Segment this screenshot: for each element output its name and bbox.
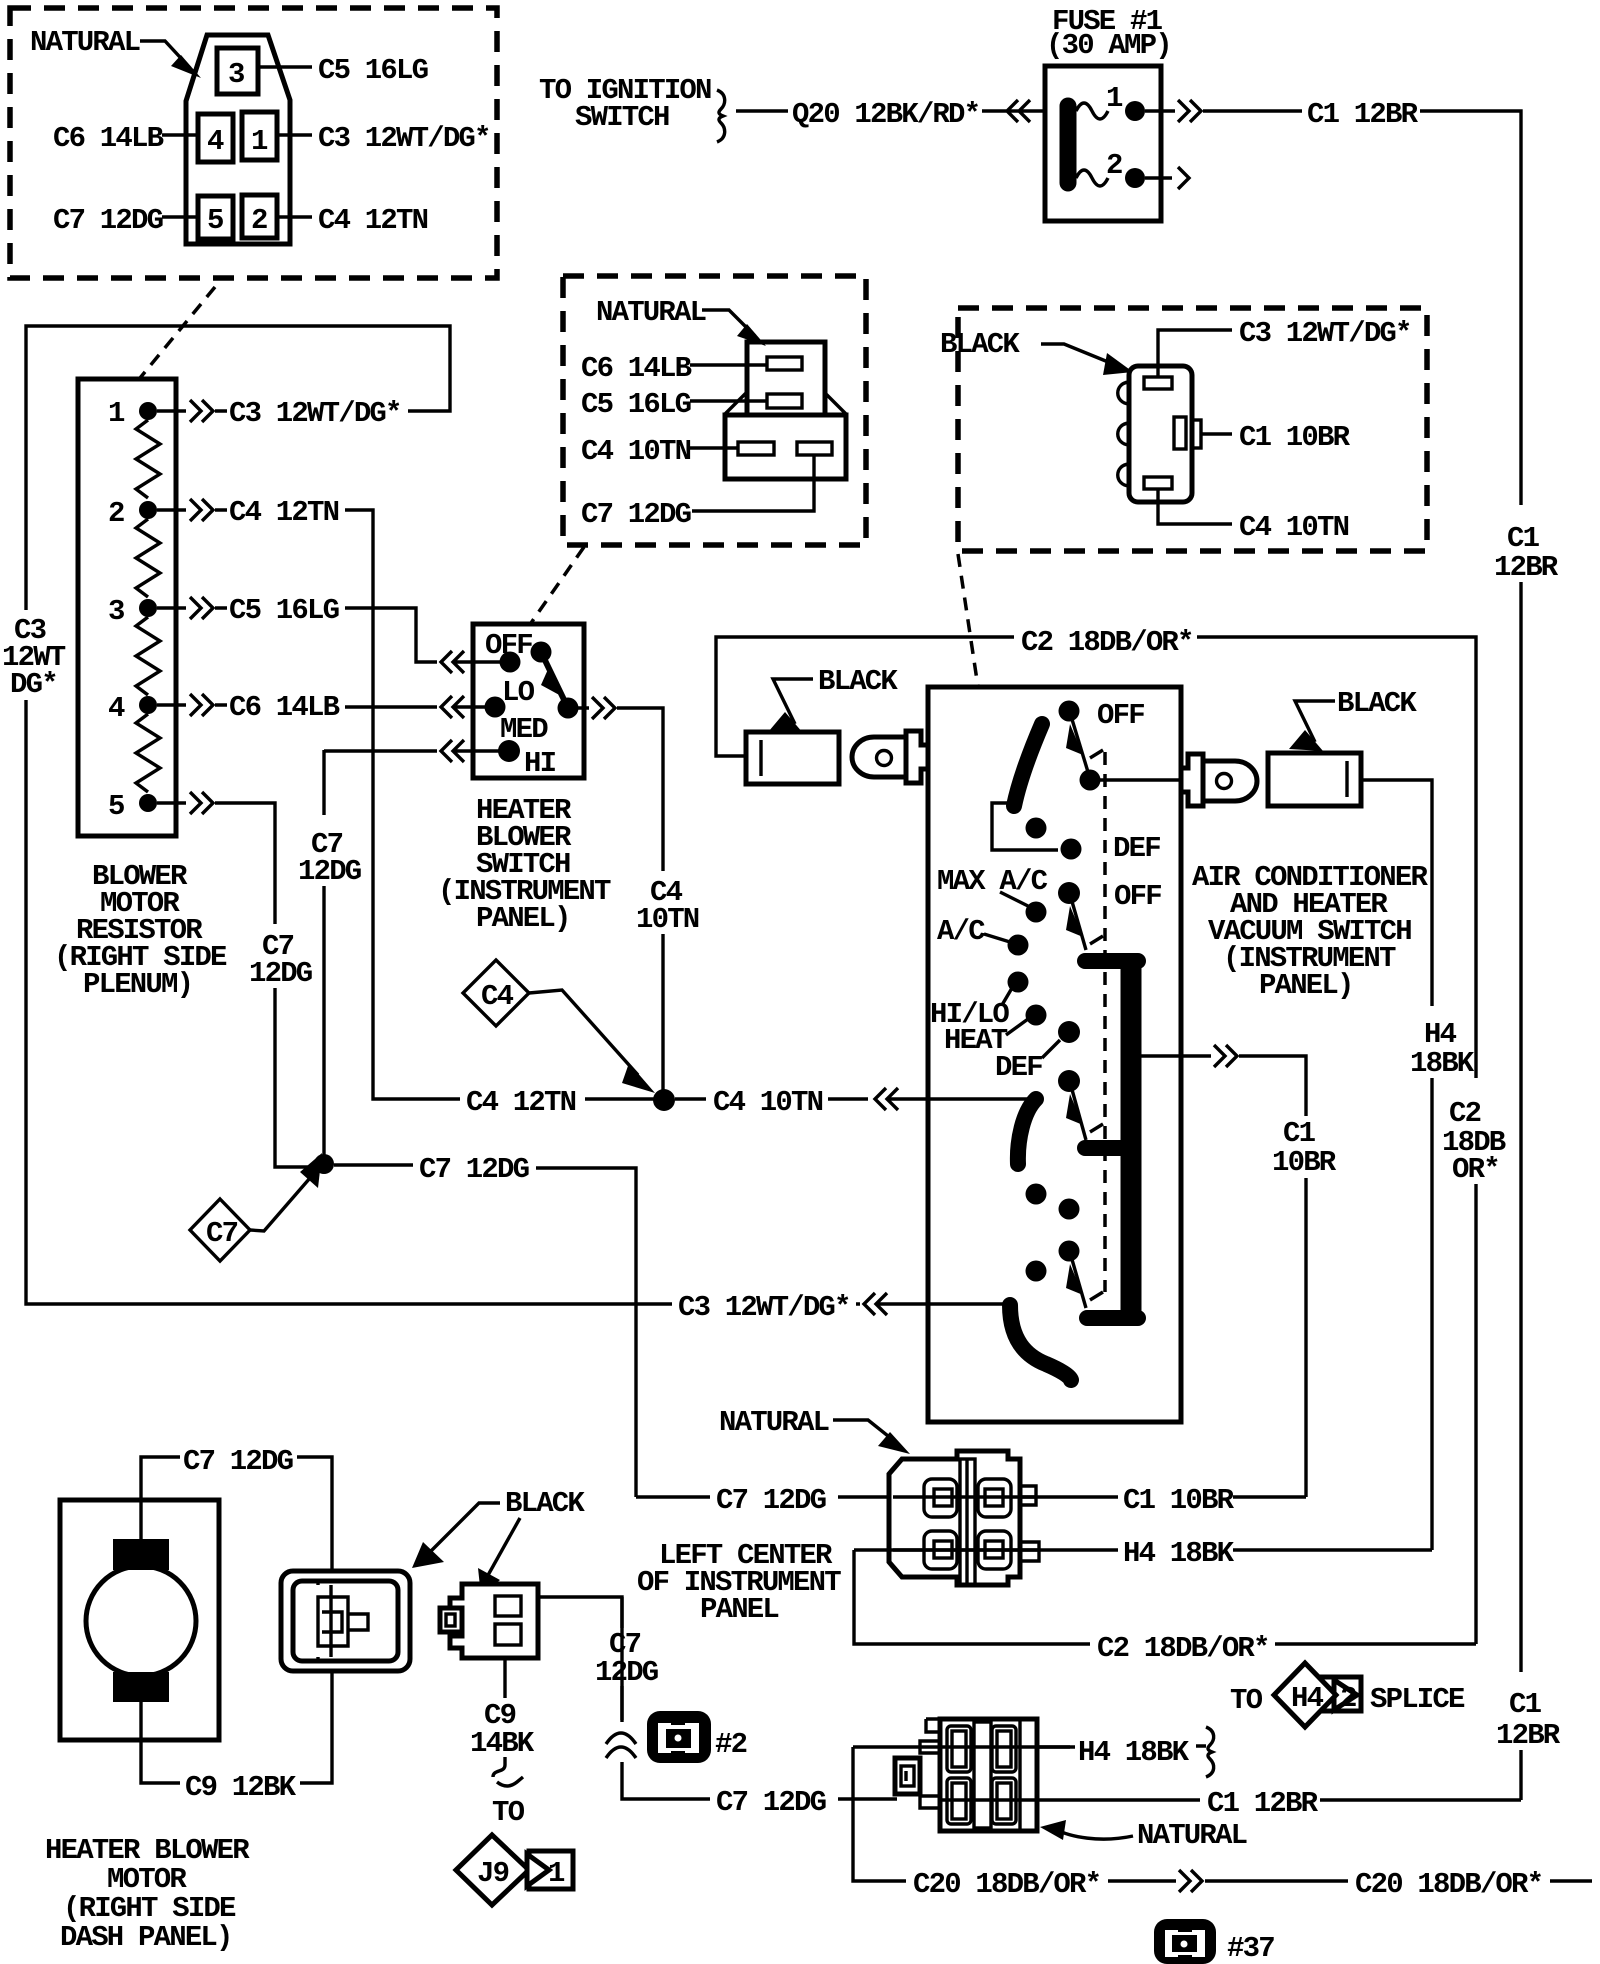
svg-text:C7 12DG: C7 12DG xyxy=(183,1445,293,1478)
svg-text:C7 12DG: C7 12DG xyxy=(581,498,691,531)
connector C252 body xyxy=(940,1719,1037,1831)
wire spine output with >> xyxy=(1141,1045,1306,1116)
svg-text:BLACK: BLACK xyxy=(940,328,1020,361)
terminal LO xyxy=(485,697,506,718)
brace (H4) xyxy=(1196,1727,1214,1777)
heater blower switch box xyxy=(473,624,584,778)
svg-text:PANEL: PANEL xyxy=(700,1593,778,1626)
pin 4 xyxy=(198,114,233,162)
svg-text:C4 12TN: C4 12TN xyxy=(466,1086,576,1119)
svg-text:SWITCH: SWITCH xyxy=(575,101,669,134)
slot C5 xyxy=(767,394,802,408)
wire HI row with << xyxy=(324,740,505,762)
resistor element 3-4 xyxy=(136,617,160,695)
dashed leader C113 to heater blower switch xyxy=(531,547,584,623)
wire C7 12DG to pin5 xyxy=(162,215,198,218)
C2 rail continues xyxy=(1474,1184,1477,1644)
svg-text:C7 12DG: C7 12DG xyxy=(716,1786,826,1819)
fuse F1 box xyxy=(1045,66,1161,221)
svg-text:Q20 12BK/RD*: Q20 12BK/RD* xyxy=(792,98,979,131)
C252 slots xyxy=(947,1726,971,1772)
wire pin4 with >> xyxy=(157,694,227,716)
vacuum trace spine xyxy=(1121,961,1142,1318)
wire pin5 drop continues xyxy=(275,988,318,1167)
switch arm 3 xyxy=(1071,1086,1086,1140)
wire C6 14LB to LO with << xyxy=(345,696,492,718)
wire ignition to Q20 xyxy=(736,109,788,112)
wire slot to C3 label xyxy=(1158,330,1232,377)
C126 pocket TR xyxy=(978,1479,1011,1517)
drop continues xyxy=(1304,1178,1307,1497)
svg-text:12DG: 12DG xyxy=(298,855,361,888)
leader arrow to connector C113 xyxy=(702,310,755,336)
leader arrow to connector C101 xyxy=(140,41,190,68)
right black connector body xyxy=(1268,753,1361,806)
svg-text:C5 16LG: C5 16LG xyxy=(318,54,428,87)
svg-text:DEF: DEF xyxy=(1113,832,1160,865)
svg-text:C20 18DB/OR*: C20 18DB/OR* xyxy=(913,1868,1100,1901)
C126 center bar xyxy=(960,1459,975,1585)
air conditioner and heater vacuum switch box xyxy=(928,687,1181,1422)
wire C4 10TN to vacuum switch with << xyxy=(675,1088,1028,1110)
resistor pin 1 xyxy=(139,402,157,420)
wire C1 12BR rail to connector row xyxy=(1519,1750,1522,1800)
dashed leader C101 to blower motor resistor xyxy=(140,287,215,378)
small connector (black) xyxy=(450,1584,538,1658)
C126 pocket TL xyxy=(924,1479,957,1517)
svg-text:1: 1 xyxy=(251,125,268,158)
label C7 12DG (junction row) xyxy=(334,1163,413,1166)
terminal common xyxy=(531,642,552,663)
junction C7 xyxy=(314,1154,334,1174)
svg-text:C4 10TN: C4 10TN xyxy=(1239,511,1349,544)
grommet #2 xyxy=(647,1711,711,1763)
svg-text:NATURAL: NATURAL xyxy=(596,296,706,329)
svg-text:3: 3 xyxy=(228,58,244,91)
switch lever xyxy=(541,652,568,708)
wire pin3 with >> xyxy=(157,597,227,619)
svg-text:C1: C1 xyxy=(1509,1688,1542,1721)
svg-text:5: 5 xyxy=(108,790,124,823)
wire H4 18BK (C252 row) xyxy=(853,1745,1070,1748)
svg-text:PANEL): PANEL) xyxy=(476,902,570,935)
wire C1 12BR rail continues xyxy=(1519,582,1522,1672)
wire C9 12BK motor bottom xyxy=(141,1702,180,1783)
wire C7 12DG from HI row down xyxy=(322,750,325,815)
wire C20 with >> xyxy=(1108,1870,1348,1892)
svg-text:2: 2 xyxy=(1340,1682,1356,1715)
splice squiggle C9 xyxy=(493,1757,523,1786)
svg-text:J9: J9 xyxy=(477,1857,509,1890)
slot C1 xyxy=(1174,417,1186,449)
resistor element 1-2 xyxy=(136,420,160,498)
wire slot to C1 label xyxy=(1201,432,1232,435)
svg-text:A/C: A/C xyxy=(937,915,985,948)
svg-text:1: 1 xyxy=(108,397,125,430)
svg-text:C3 12WT/DG*: C3 12WT/DG* xyxy=(678,1291,850,1324)
svg-text:C3 12WT/DG*: C3 12WT/DG* xyxy=(318,122,490,155)
wire small connector right xyxy=(538,1597,622,1722)
svg-text:C7 12DG: C7 12DG xyxy=(53,204,163,237)
svg-text:C7 12DG: C7 12DG xyxy=(716,1484,826,1517)
svg-text:NATURAL: NATURAL xyxy=(30,26,140,59)
wire C7 12DG motor top xyxy=(141,1457,180,1541)
svg-text:C20 18DB/OR*: C20 18DB/OR* xyxy=(1355,1868,1542,1901)
wire C7 12DG into C126 xyxy=(636,1495,710,1498)
svg-text:C9 12BK: C9 12BK xyxy=(185,1771,297,1804)
dashed position line xyxy=(1103,752,1107,1292)
svg-text:DEF: DEF xyxy=(995,1051,1042,1084)
port dots column xyxy=(1059,701,1080,722)
vacuum trace banana2 xyxy=(1018,1099,1036,1164)
connector C148 detail dashed box xyxy=(958,308,1427,551)
switch arm 4 xyxy=(1071,1256,1086,1308)
terminal output xyxy=(558,698,579,719)
svg-text:HI: HI xyxy=(524,747,556,780)
svg-text:H4: H4 xyxy=(1291,1682,1324,1715)
svg-text:H4 18BK: H4 18BK xyxy=(1078,1736,1190,1769)
svg-text:4: 4 xyxy=(207,125,224,158)
svg-text:C3 12WT/DG*: C3 12WT/DG* xyxy=(229,397,401,430)
svg-text:4: 4 xyxy=(108,692,125,725)
svg-text:12DG: 12DG xyxy=(595,1656,658,1689)
svg-text:5: 5 xyxy=(207,204,223,237)
svg-text:TO: TO xyxy=(1230,1684,1263,1717)
wire H4 row down to C2 row xyxy=(854,1550,1090,1644)
C126 pocket BL xyxy=(924,1531,957,1569)
C126 pocket BR xyxy=(978,1531,1011,1569)
svg-text:BLACK: BLACK xyxy=(1337,687,1417,720)
wire C1 10BR row through C126 xyxy=(930,1495,1118,1498)
svg-text:14BK: 14BK xyxy=(470,1727,535,1760)
svg-text:C4: C4 xyxy=(481,980,514,1013)
pin 1 xyxy=(242,112,277,160)
resistor element 2-3 xyxy=(136,519,160,597)
vacuum trace top stub xyxy=(1085,953,1138,969)
wire C9 14BK drop xyxy=(503,1658,506,1698)
wire H4 row through pockets xyxy=(893,1548,1039,1551)
junction C4 xyxy=(653,1089,675,1111)
wire pin5 with >> xyxy=(157,792,275,924)
svg-text:C5 16LG: C5 16LG xyxy=(581,388,691,421)
connector C126 body xyxy=(889,1451,1020,1585)
wire C7 12DG to drop xyxy=(536,1168,636,1497)
svg-text:C1 12BR: C1 12BR xyxy=(1207,1787,1319,1820)
wire C1 through C252 xyxy=(940,1798,1037,1801)
pin 5 xyxy=(198,196,233,239)
splice J9 diamond xyxy=(456,1835,529,1905)
wire C4 12TN down xyxy=(345,510,460,1099)
wire C6 14LB to pin4 xyxy=(162,133,198,136)
wire pin1 loop to left rail xyxy=(26,326,450,610)
heater blower motor box xyxy=(60,1500,219,1740)
svg-text:C7: C7 xyxy=(206,1217,238,1250)
splice symbol C7 xyxy=(190,1199,250,1261)
wire H4 from right connector xyxy=(1361,780,1432,1006)
grommet #37 xyxy=(1154,1919,1216,1964)
wire pin2 to C4 12TN xyxy=(277,215,312,218)
resistor pin 4 xyxy=(139,696,157,714)
wire C20 row xyxy=(853,1747,906,1881)
svg-text:NATURAL: NATURAL xyxy=(719,1406,829,1439)
resistor element 4-5 xyxy=(136,714,160,792)
motor body xyxy=(86,1566,196,1676)
svg-text:LO: LO xyxy=(502,676,535,709)
slot C3 xyxy=(1144,377,1172,389)
wire C1 12BR (C252 row) xyxy=(1037,1798,1200,1801)
connector C148 body xyxy=(1129,366,1192,502)
svg-text:2: 2 xyxy=(108,497,124,530)
svg-text:BLACK: BLACK xyxy=(818,665,898,698)
svg-text:OFF: OFF xyxy=(1097,699,1144,732)
pin 2 xyxy=(242,195,277,238)
wire pin2 with >> xyxy=(157,499,227,521)
right terminal lug xyxy=(1181,754,1203,806)
svg-text:OFF: OFF xyxy=(1114,880,1161,913)
svg-text:12BR: 12BR xyxy=(1494,551,1559,584)
drop segments xyxy=(622,1597,710,1799)
svg-text:NATURAL: NATURAL xyxy=(1137,1819,1247,1852)
wire pin1 with >> xyxy=(157,400,227,422)
svg-text:SPLICE: SPLICE xyxy=(1370,1683,1465,1716)
dashed leader C148 to vacuum switch xyxy=(958,554,978,687)
svg-text:PLENUM): PLENUM) xyxy=(83,968,192,1001)
svg-text:10TN: 10TN xyxy=(636,903,699,936)
motor brush bottom xyxy=(113,1672,169,1702)
left terminal lug xyxy=(906,731,928,783)
leader arrow to connector C148 xyxy=(1041,344,1118,366)
svg-text:(30 AMP): (30 AMP) xyxy=(1046,29,1171,62)
motor connector (black) xyxy=(281,1571,410,1671)
svg-text:3: 3 xyxy=(108,595,124,628)
wire C1 row through pockets xyxy=(893,1495,1036,1498)
vacuum trace middle stub xyxy=(1085,1140,1125,1156)
svg-text:C2 18DB/OR*: C2 18DB/OR* xyxy=(1097,1632,1269,1665)
left rail continues xyxy=(26,700,672,1304)
svg-text:DASH PANEL): DASH PANEL) xyxy=(60,1921,232,1954)
splice symbol C4 xyxy=(463,960,529,1026)
wire C2 18DB/OR* from left black connector xyxy=(716,637,1014,756)
wire C4 12TN to junction xyxy=(585,1097,655,1100)
svg-text:#2: #2 xyxy=(715,1728,747,1761)
fuse pin 2 stub arrow xyxy=(1145,167,1189,189)
lower connector C252 left plug xyxy=(895,1758,920,1794)
svg-text:#37: #37 xyxy=(1227,1932,1274,1964)
wire C5 16LG to OFF with << xyxy=(345,608,505,673)
svg-text:OR*: OR* xyxy=(1452,1153,1499,1186)
svg-text:C6 14LB: C6 14LB xyxy=(581,352,692,385)
wire OFF arm output to right xyxy=(1090,778,1181,781)
connector marker << (fuse input) xyxy=(982,100,1045,122)
connector C113 body upper xyxy=(747,342,825,415)
slot C7 xyxy=(797,442,832,455)
svg-text:1: 1 xyxy=(548,1857,565,1890)
svg-text:C4 12TN: C4 12TN xyxy=(318,204,428,237)
resistor pin 3 xyxy=(139,599,157,617)
resistor pin 5 xyxy=(139,794,157,812)
slot C4 xyxy=(738,442,774,455)
svg-text:12BR: 12BR xyxy=(1496,1719,1561,1752)
svg-text:C3 12WT/DG*: C3 12WT/DG* xyxy=(1239,317,1411,350)
drop continues xyxy=(661,934,664,1094)
wire C3 row to vacuum switch with << xyxy=(856,1293,1010,1315)
motor brush top xyxy=(113,1539,169,1570)
wire C1 12BR right rail xyxy=(1420,111,1521,505)
svg-text:C2 18DB/OR*: C2 18DB/OR* xyxy=(1021,626,1193,659)
pin 3 xyxy=(217,48,258,94)
wire slot to C4 label xyxy=(1158,489,1232,524)
wire fuse to C1 12BR xyxy=(1203,109,1302,112)
connector C101 detail dashed box xyxy=(10,8,497,278)
svg-text:BLACK: BLACK xyxy=(505,1487,585,1520)
svg-text:10BR: 10BR xyxy=(1272,1146,1337,1179)
wire C2 bottom to rail xyxy=(1275,1642,1476,1645)
splice H4 pointer box xyxy=(1321,1677,1361,1711)
connector C101 body xyxy=(186,35,290,244)
svg-text:C1 12BR: C1 12BR xyxy=(1307,98,1419,131)
wire pin1 to C3 12WT/DG* xyxy=(277,133,312,136)
connector C113 body lower xyxy=(725,415,846,479)
svg-text:C5 16LG: C5 16LG xyxy=(229,594,339,627)
wire switch output with >> xyxy=(578,697,663,871)
svg-text:12DG: 12DG xyxy=(249,957,312,990)
break symbol (C7 12DG) xyxy=(606,1733,636,1758)
svg-text:2: 2 xyxy=(1106,149,1122,182)
svg-text:DG*: DG* xyxy=(10,668,57,701)
connector marker >> (fuse output) xyxy=(1145,100,1201,122)
wire pin3 to C5 16LG xyxy=(258,65,312,68)
connector C113 detail dashed box xyxy=(563,276,866,545)
fuse element pin 1 xyxy=(1076,103,1108,119)
vacuum trace banana3 xyxy=(1010,1305,1071,1380)
splice H4 diamond xyxy=(1274,1663,1336,1727)
terminal OFF xyxy=(500,652,521,673)
switch arm 2 xyxy=(1071,898,1086,950)
svg-text:MAX A/C: MAX A/C xyxy=(937,865,1048,898)
svg-text:TO: TO xyxy=(492,1796,525,1829)
wire H4 18BK row xyxy=(854,1548,1118,1551)
brace (ignition) xyxy=(717,90,725,142)
switch arm OFF xyxy=(1071,716,1088,772)
svg-text:C4 10TN: C4 10TN xyxy=(713,1086,823,1119)
fuse element pin 2 xyxy=(1076,170,1108,186)
slot C6 xyxy=(767,357,802,370)
svg-text:C4 12TN: C4 12TN xyxy=(229,496,339,529)
svg-text:1: 1 xyxy=(1106,82,1123,115)
thin port outline xyxy=(992,803,1058,850)
connector C113 shoulders xyxy=(725,393,746,414)
svg-text:C1 10BR: C1 10BR xyxy=(1239,421,1351,454)
svg-text:C6 14LB: C6 14LB xyxy=(53,122,164,155)
resistor pin 2 xyxy=(139,501,157,519)
svg-text:C6 14LB: C6 14LB xyxy=(229,691,340,724)
svg-text:C7 12DG: C7 12DG xyxy=(419,1153,529,1186)
svg-text:C1 10BR: C1 10BR xyxy=(1123,1484,1235,1517)
wire C2 to right and down xyxy=(1197,637,1476,1078)
terminal HI xyxy=(498,740,520,762)
wire H4 through C252 xyxy=(940,1745,1075,1748)
svg-text:H4 18BK: H4 18BK xyxy=(1123,1537,1235,1570)
vacuum trace upper (banana1) xyxy=(1014,724,1042,806)
left black connector body xyxy=(746,732,839,784)
svg-text:C4 10TN: C4 10TN xyxy=(581,435,691,468)
svg-text:PANEL): PANEL) xyxy=(1259,969,1353,1002)
svg-text:2: 2 xyxy=(251,204,267,237)
fuse element bar xyxy=(1060,106,1077,183)
C126 right tabs xyxy=(1020,1486,1039,1561)
HI drop continues xyxy=(322,886,325,1155)
svg-text:18BK: 18BK xyxy=(1410,1047,1475,1080)
slot C4 xyxy=(1144,477,1172,489)
blower motor resistor box xyxy=(78,379,176,836)
H4 drop continues xyxy=(1430,1078,1433,1550)
vacuum trace bottom stub xyxy=(1087,1310,1138,1326)
